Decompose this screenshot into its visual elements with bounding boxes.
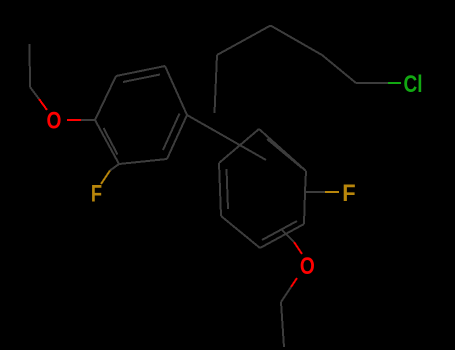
- wire: ring2 edge T-TL: [219, 129, 259, 163]
- wire: ring1 edge BR-BL: [119, 159, 167, 164]
- wire: ring1 inner double R-BR: [163, 114, 180, 151]
- bond C4-C5: [322, 55, 356, 83]
- wire: ring1 edge TL-TR: [116, 66, 165, 76]
- svg-text:O: O: [300, 253, 315, 280]
- wire: ring2 inner double RFtop-T: [267, 139, 302, 168]
- bond CH2-CH3 ethyl left: [29, 44, 32, 87]
- bond O2-CH2 gray half: [281, 287, 291, 302]
- wire: ring2 edge BR-RF: [304, 192, 305, 224]
- bond F1-ring olive half: [101, 171, 110, 185]
- svg-text:F: F: [342, 180, 355, 207]
- wire: ring1 edge L-TL: [95, 76, 116, 120]
- wire: ring2 edge BL-B: [221, 216, 260, 248]
- bond C5-Cl green half: [388, 82, 401, 84]
- wire: ring2 edge TL-BL: [219, 163, 221, 216]
- bond O2-CH2 red half: [291, 278, 297, 287]
- bond C3-C4 apex right leg: [271, 26, 323, 56]
- bond O2-ring gray half: [282, 230, 294, 242]
- bond F1-ring gray half: [110, 164, 119, 171]
- bond F2-ring olive half: [325, 191, 339, 193]
- bond O1-CH2 red half: [39, 99, 47, 110]
- bond C2-C3 apex left leg: [217, 26, 271, 56]
- svg-text:O: O: [47, 108, 62, 135]
- svg-text:Cl: Cl: [404, 71, 423, 98]
- bond C2=C1 vertical: [215, 55, 218, 113]
- bond O1-ring red half: [67, 119, 81, 121]
- right benzene ring: [219, 129, 306, 248]
- wire: ring1 inner double TL-TR: [123, 75, 160, 83]
- wire: ring2 edge RFtop-T: [259, 129, 306, 171]
- wire: ring1 edge TR-R: [165, 66, 187, 115]
- wire: ring1 edge R-BR: [167, 115, 187, 159]
- wire: ring1 inner double BL-L: [104, 128, 118, 155]
- bond C5-Cl gray half: [356, 82, 388, 84]
- wire: ring2 edge RF-T: [305, 171, 306, 192]
- bond O2-ring red half: [294, 242, 302, 254]
- left benzene ring: [95, 66, 187, 164]
- wire: ring2 inner double TL-BL: [227, 169, 229, 209]
- bond bridge ring1-C1: [187, 115, 266, 160]
- bond O1-CH2 gray half: [30, 87, 39, 99]
- wire: ring1 edge BL-L: [95, 120, 119, 164]
- svg-text:F: F: [91, 181, 102, 208]
- bond O1-ring gray half: [81, 119, 95, 121]
- bond F2-ring gray half: [305, 191, 325, 193]
- wire: ring2 inner double B-BR: [262, 221, 297, 240]
- wire: ring2 edge B-BR: [260, 224, 304, 248]
- bond CH2-CH3 ethyl right: [281, 302, 284, 347]
